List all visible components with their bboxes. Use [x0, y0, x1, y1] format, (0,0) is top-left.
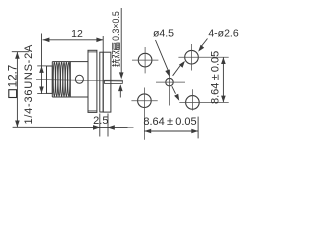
mounting hole bottom-right — [186, 96, 200, 110]
dimension 2.5 left ext line — [99, 114, 101, 137]
svg-text:0.3×0.5: 0.3×0.5 — [111, 11, 121, 41]
pin bottom arrow — [118, 84, 123, 91]
insulator piece — [100, 52, 103, 112]
dimension 12.7 bottom arrow — [15, 121, 20, 128]
svg-text:8.64 ± 0.05: 8.64 ± 0.05 — [143, 116, 196, 128]
bottom dim right ext line — [197, 117, 199, 139]
nose top extension tick — [37, 65, 46, 67]
nose bottom extension tick — [37, 93, 46, 95]
leader center arrow down-right — [174, 94, 179, 101]
extension line left of 12 — [41, 34, 43, 95]
center pin hole — [166, 78, 173, 85]
leader center to bottom-right hole — [172, 86, 176, 94]
vertical dim top arrow — [221, 57, 226, 64]
svg-text:2.5: 2.5 — [93, 115, 108, 127]
dimension 12.7 top arrow — [15, 52, 20, 59]
bottom dim right arrow — [191, 129, 198, 134]
dimension 12 line — [43, 39, 104, 41]
thread dia top arrow — [39, 66, 44, 73]
thread dia bottom arrow — [39, 87, 44, 94]
vertical dim 8.64 text — [210, 51, 222, 104]
mounting hole bottom-left — [138, 94, 152, 108]
dimension 2.5 left arrow — [93, 125, 100, 130]
dimension 12 right arrow — [96, 38, 103, 43]
bottom dim 8.64 line — [144, 130, 198, 132]
pin bottom arrow line — [119, 86, 121, 98]
leader 4-dia 2.6 arrow — [198, 45, 204, 52]
vertical dim 8.64 line — [222, 57, 224, 102]
dimension 12 left arrow — [43, 38, 50, 43]
svg-text:12: 12 — [71, 28, 83, 40]
terminal pin — [105, 80, 123, 83]
leader 4-dia 2.6 — [201, 39, 207, 47]
note leader line — [120, 8, 122, 74]
mounting hole top-left — [138, 53, 152, 67]
mounting hole top-right — [185, 50, 199, 64]
connector nose cylinder — [47, 66, 53, 93]
body plate — [88, 50, 97, 112]
centerline left view — [36, 79, 123, 81]
svg-text:4-ø2.6: 4-ø2.6 — [208, 27, 239, 39]
label square 12.7 — [8, 65, 20, 98]
hex body section — [70, 62, 88, 97]
svg-text:ø4.5: ø4.5 — [153, 27, 174, 39]
pin top arrow — [119, 72, 124, 79]
extension line flange left face — [102, 36, 104, 52]
threaded section 1/4-36UNS-2A — [52, 61, 70, 63]
leader center to top-right hole — [173, 65, 181, 76]
vertical dim bottom arrow — [221, 96, 226, 103]
leader dia 4.5 arrow — [165, 69, 169, 76]
flange plate side view — [103, 52, 111, 112]
label 1/4-36UNS-2A — [23, 44, 35, 125]
baseline extension line — [13, 126, 134, 128]
leader dia 4.5 — [156, 40, 169, 70]
dimension 2.5 right ext line — [107, 114, 109, 137]
svg-text:8.64 ± 0.05: 8.64 ± 0.05 — [210, 51, 222, 104]
svg-text:12.7: 12.7 — [8, 65, 20, 87]
solder hole in hex body — [75, 75, 83, 83]
bottom dim left arrow — [144, 129, 151, 134]
leader center arrow up-right — [179, 61, 185, 68]
flange top extension tick — [12, 51, 30, 53]
dimension 2.5 right arrow — [108, 125, 115, 130]
note milled double flat 0.3x0.5 — [111, 11, 121, 66]
svg-text:1/4-36UNS-2A: 1/4-36UNS-2A — [23, 44, 35, 125]
dimension 12.7 line — [16, 52, 18, 127]
